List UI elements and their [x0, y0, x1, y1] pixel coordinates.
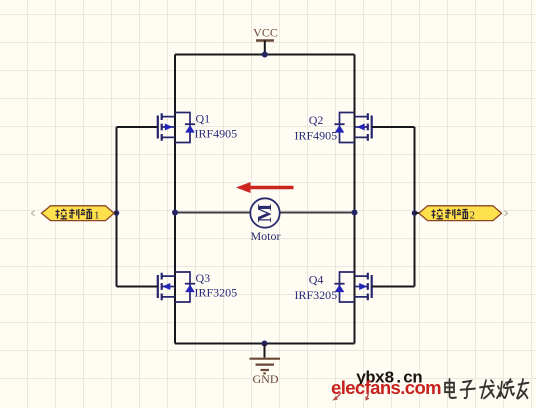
transistor Q4 IRF3205 [334, 272, 371, 302]
wire Q1 gate lead [117, 126, 158, 128]
svg-text:GND: GND [253, 372, 279, 386]
transistor Q1 body diode [185, 125, 195, 133]
wire bottom rail [175, 343, 355, 345]
node mid-left junction [172, 210, 178, 216]
wire right branch [354, 55, 356, 344]
power port VCC [253, 26, 278, 55]
svg-text:VCC: VCC [253, 26, 278, 40]
transistor Q2 body diode [335, 125, 345, 133]
node mid-right junction [352, 210, 358, 216]
transistor Q2 arrow [357, 124, 365, 131]
svg-text:IRF4905: IRF4905 [295, 129, 338, 143]
wire left control vertical [116, 127, 118, 287]
transistor Q1 arrow [165, 124, 173, 131]
transistor Q1 IRF4905 [158, 113, 195, 143]
motor M1 [250, 198, 279, 227]
node VCC junction [262, 52, 268, 58]
wire port2 stub [415, 212, 420, 214]
transistor Q4 arrow [359, 283, 367, 290]
watermark flourish tails [334, 393, 341, 400]
ground GND [250, 344, 281, 387]
svg-text:elecfans.com: elecfans.com [331, 377, 441, 398]
transistor Q3 IRF3205 [158, 272, 195, 302]
wire port1 stub [114, 212, 117, 214]
node left control junction [114, 210, 120, 216]
wire top rail [175, 54, 355, 56]
wire middle rail [175, 212, 355, 214]
svg-text:IRF3205: IRF3205 [195, 286, 238, 300]
svg-text:2: 2 [470, 210, 476, 222]
wire right control vertical [414, 127, 416, 287]
svg-text:Motor: Motor [251, 229, 281, 243]
port 控制端1 [32, 206, 115, 222]
wire Q2 gate lead [372, 126, 415, 128]
node GND junction [262, 341, 268, 347]
svg-text:Q2: Q2 [309, 113, 324, 127]
wire left branch [174, 55, 176, 344]
svg-text:Q4: Q4 [309, 273, 324, 287]
transistor Q2 IRF4905 [334, 113, 371, 143]
node right control junction [412, 210, 418, 216]
wire Q4 gate lead [372, 286, 415, 288]
svg-text:1: 1 [94, 210, 100, 222]
svg-text:IRF3205: IRF3205 [295, 288, 338, 302]
svg-text:IRF4905: IRF4905 [195, 127, 238, 141]
watermark 电子发烧友 [445, 379, 529, 398]
svg-text:Q3: Q3 [196, 271, 211, 285]
svg-text:Q1: Q1 [196, 112, 211, 126]
transistor Q3 arrow [162, 283, 170, 290]
transistor Q3 body diode [185, 285, 195, 293]
wire Q3 gate lead [117, 286, 158, 288]
transistor Q4 body diode [335, 285, 345, 293]
direction arrow (red) [236, 182, 294, 193]
port 控制端2 [419, 206, 508, 222]
svg-text:M: M [254, 203, 276, 222]
